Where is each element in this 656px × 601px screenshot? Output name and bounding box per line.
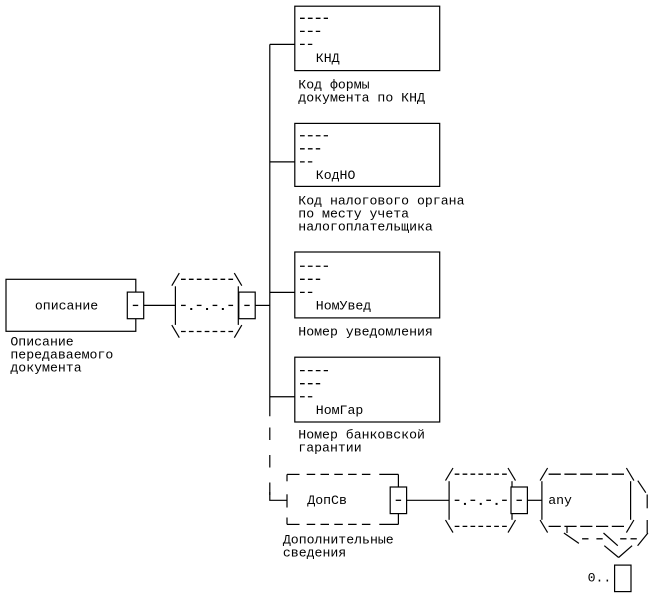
- wire ДопСв to sequence: [407, 499, 450, 501]
- wire branch НомГар: [270, 396, 296, 398]
- svg-text:КодНО: КодНО: [316, 168, 356, 183]
- wire branch КодНО: [270, 161, 296, 163]
- element box any: [540, 468, 634, 533]
- svg-text:описание: описание: [35, 299, 98, 314]
- element box КодНО: [295, 123, 440, 186]
- sequence compositor 2: [446, 468, 516, 533]
- element box ДопСв (optional): [287, 474, 398, 524]
- svg-text:any: any: [548, 493, 572, 508]
- expand button 4: [511, 487, 527, 514]
- svg-text:ДопСв: ДопСв: [307, 493, 347, 508]
- element box описание: [6, 279, 136, 331]
- trunk wire dashed: [270, 428, 287, 501]
- expand button 2: [239, 292, 255, 319]
- svg-text:0..: 0..: [588, 571, 612, 586]
- svg-text:НомУвед: НомУвед: [316, 299, 371, 314]
- annotation ДопСв: [283, 533, 394, 561]
- trunk wire solid: [269, 44, 271, 416]
- occurrence indicator 0..: [588, 565, 631, 592]
- svg-text:НомГар: НомГар: [316, 403, 364, 418]
- expand button 1: [127, 292, 143, 319]
- wire описание to sequence: [144, 304, 176, 306]
- wire sequence to any: [527, 499, 542, 501]
- annotation НомУвед: [298, 324, 433, 339]
- svg-text:КНД: КНД: [316, 51, 340, 66]
- svg-text:Номер уведомления: Номер уведомления: [298, 324, 433, 339]
- wire sequence to trunk: [255, 304, 270, 306]
- annotation НомГар: [298, 427, 425, 455]
- expand button 3: [390, 487, 406, 514]
- wire branch КНД: [270, 43, 296, 45]
- svg-text:документа по КНД: документа по КНД: [298, 90, 425, 105]
- element box КНД: [295, 6, 440, 70]
- svg-text:налогоплательщика: налогоплательщика: [298, 220, 433, 235]
- element box НомУвед: [295, 252, 440, 318]
- element box НомГар: [295, 357, 440, 422]
- svg-text:сведения: сведения: [283, 546, 346, 561]
- svg-text:гарантии: гарантии: [298, 440, 361, 455]
- wire branch НомУвед: [270, 291, 296, 293]
- multiple-occurrence outline and arrow: [564, 481, 648, 558]
- annotation КНД: [298, 77, 425, 105]
- svg-text:документа: документа: [10, 360, 81, 375]
- sequence compositor 1: [172, 273, 242, 338]
- annotation КодНО: [298, 194, 464, 235]
- annotation описание: [10, 334, 113, 375]
